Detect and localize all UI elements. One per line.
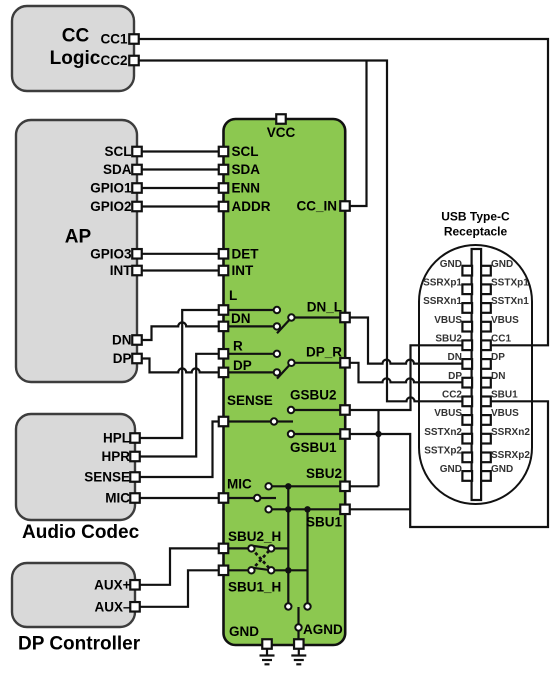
svg-text:SBU1: SBU1	[491, 390, 518, 401]
svg-text:MIC: MIC	[227, 477, 252, 492]
svg-text:CC2: CC2	[442, 390, 462, 401]
svg-text:SCL: SCL	[232, 144, 259, 159]
svg-text:VBUS: VBUS	[491, 315, 519, 326]
svg-text:Receptacle: Receptacle	[444, 225, 508, 239]
svg-text:SSRXn1: SSRXn1	[423, 296, 462, 307]
svg-text:HPR: HPR	[101, 449, 130, 464]
svg-text:DP_R: DP_R	[306, 345, 342, 360]
svg-text:AUX+: AUX+	[94, 577, 131, 592]
svg-text:SBU2: SBU2	[435, 334, 462, 345]
svg-text:GND: GND	[229, 624, 259, 639]
svg-text:DP: DP	[233, 358, 252, 373]
svg-text:SSRXn2: SSRXn2	[491, 427, 530, 438]
svg-text:Logic: Logic	[50, 48, 101, 69]
svg-text:DP: DP	[448, 371, 462, 382]
svg-text:DET: DET	[232, 246, 260, 261]
svg-text:VBUS: VBUS	[491, 408, 519, 419]
svg-text:SSTXn2: SSTXn2	[424, 427, 462, 438]
svg-text:AGND: AGND	[303, 622, 343, 637]
svg-text:INT: INT	[110, 263, 133, 278]
svg-text:SSTXn1: SSTXn1	[491, 296, 529, 307]
svg-text:AP: AP	[65, 227, 92, 248]
svg-text:SBU2_H: SBU2_H	[228, 529, 281, 544]
svg-text:SCL: SCL	[105, 144, 132, 159]
svg-text:SBU1: SBU1	[306, 515, 343, 530]
svg-text:L: L	[229, 288, 237, 303]
svg-text:DN: DN	[448, 352, 462, 363]
svg-text:INT: INT	[232, 263, 255, 278]
svg-text:SSRXp1: SSRXp1	[423, 278, 462, 289]
svg-text:GND: GND	[491, 464, 513, 475]
svg-text:VBUS: VBUS	[434, 315, 462, 326]
svg-text:GPIO1: GPIO1	[90, 181, 132, 196]
svg-text:DP: DP	[491, 352, 505, 363]
svg-text:CC_IN: CC_IN	[296, 199, 337, 214]
svg-text:SBU2: SBU2	[306, 466, 342, 481]
svg-text:DP: DP	[113, 351, 132, 366]
svg-text:GSBU1: GSBU1	[290, 440, 337, 455]
svg-text:GND: GND	[440, 464, 462, 475]
svg-text:GSBU2: GSBU2	[290, 388, 337, 403]
svg-text:Audio Codec: Audio Codec	[22, 522, 140, 543]
svg-text:SSTXp1: SSTXp1	[491, 278, 529, 289]
svg-text:GND: GND	[491, 259, 513, 270]
svg-text:GPIO2: GPIO2	[90, 199, 131, 214]
svg-text:SENSE: SENSE	[227, 393, 273, 408]
svg-text:SENSE: SENSE	[84, 470, 130, 485]
svg-text:VCC: VCC	[267, 125, 296, 140]
svg-text:SBU1_H: SBU1_H	[228, 580, 281, 595]
svg-text:VBUS: VBUS	[434, 408, 462, 419]
svg-text:AUX–: AUX–	[94, 599, 131, 614]
svg-text:SSTXp2: SSTXp2	[424, 446, 462, 457]
svg-text:SDA: SDA	[232, 162, 261, 177]
svg-text:R: R	[233, 339, 243, 354]
svg-text:GPIO3: GPIO3	[90, 246, 132, 261]
svg-text:CC2: CC2	[100, 53, 127, 68]
svg-text:DN: DN	[112, 333, 132, 348]
svg-text:SSRXp2: SSRXp2	[491, 450, 530, 461]
svg-text:USB Type-C: USB Type-C	[441, 210, 510, 224]
svg-text:DP Controller: DP Controller	[18, 634, 141, 655]
svg-text:CC1: CC1	[491, 334, 511, 345]
svg-text:DN_L: DN_L	[307, 300, 342, 315]
svg-text:CC: CC	[62, 26, 90, 47]
svg-text:GND: GND	[440, 259, 462, 270]
svg-text:HPL: HPL	[103, 431, 130, 446]
svg-text:DN: DN	[491, 371, 505, 382]
svg-text:DN: DN	[231, 311, 251, 326]
svg-text:ENN: ENN	[232, 181, 261, 196]
svg-text:SDA: SDA	[103, 162, 132, 177]
svg-text:CC1: CC1	[100, 32, 127, 47]
svg-text:ADDR: ADDR	[232, 199, 271, 214]
svg-text:MIC: MIC	[105, 491, 130, 506]
